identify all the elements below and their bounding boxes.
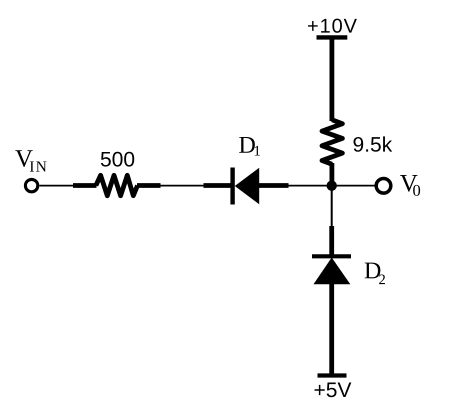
label +10V	[308, 19, 357, 33]
label D2	[365, 263, 385, 285]
wire resistor 9.5k to node	[329, 163, 334, 186]
wire VIN to resistor 500	[40, 185, 76, 187]
diode D2 cathode bar	[312, 254, 351, 258]
resistor 500 right lead	[137, 183, 161, 188]
wire +10V bar to resistor 9.5k	[329, 37, 334, 121]
wire diode D1 to node	[289, 185, 332, 187]
diode D1 anode lead	[204, 183, 232, 188]
power rail +5V bar	[318, 373, 347, 377]
value label 500	[101, 152, 134, 167]
value label 9.5k	[353, 136, 392, 151]
resistor 500 left lead	[73, 183, 97, 188]
diode D2 cathode lead	[329, 226, 334, 256]
terminal V0 circle	[376, 179, 391, 194]
wire node to V0 terminal	[332, 185, 375, 187]
resistor 500 zigzag	[96, 175, 138, 195]
diode D1 triangle	[235, 168, 259, 204]
terminal VIN circle	[25, 179, 37, 191]
node junction dot	[327, 181, 337, 191]
resistor 9.5k zigzag	[322, 120, 342, 164]
power rail +10V bar	[317, 35, 348, 39]
label VIN	[15, 150, 46, 171]
wire diode D2 to +5V bar	[329, 284, 334, 376]
label +5V	[315, 383, 352, 398]
wire resistor 500 to diode D1	[161, 185, 205, 187]
label D1	[239, 137, 260, 156]
diode D1 right lead	[258, 183, 289, 188]
diode D1 cathode bar	[230, 168, 234, 205]
wire node to diode D2	[331, 186, 333, 228]
diode D2 triangle	[314, 258, 351, 285]
label V0	[400, 175, 420, 196]
